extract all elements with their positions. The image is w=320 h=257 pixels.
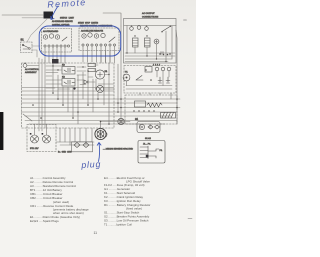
wire from connector to S1 bbox=[27, 19, 47, 42]
fuel pump E4 bbox=[135, 101, 146, 107]
svg-text:A1 CONTROL: A1 CONTROL bbox=[25, 68, 40, 71]
ignition bus wires bbox=[126, 86, 172, 90]
terminal row bbox=[44, 45, 46, 47]
connector block (dark) bbox=[52, 59, 59, 64]
svg-text:SWITCH LIGHT: SWITCH LIGHT bbox=[60, 18, 75, 20]
switch lever bbox=[109, 37, 115, 42]
connector J (black block) bbox=[44, 12, 54, 19]
oil pressure switch S3 bbox=[96, 85, 103, 92]
wire bus y120.5 bbox=[25, 120, 177, 122]
diode CR1 bbox=[84, 80, 88, 84]
resistor R1 bbox=[147, 103, 162, 107]
wire risers panel right bbox=[101, 46, 115, 63]
terminal dot row bbox=[133, 110, 154, 111]
wire riser x118 bbox=[117, 64, 119, 112]
svg-text:J1 – P1: J1 – P1 bbox=[143, 144, 151, 146]
wire drops to bottom bus bbox=[60, 128, 92, 145]
meter M3 bbox=[55, 35, 59, 39]
svg-text:T1 ..........Ignition Coil: T1 ..........Ignition Coil bbox=[104, 223, 132, 227]
rectifier diamond CR' bbox=[83, 143, 89, 148]
wire drops from A2 bbox=[83, 46, 110, 62]
brush block (hatched) bbox=[161, 113, 176, 119]
wire left riser cluster bbox=[39, 58, 45, 131]
svg-text:S1 A2: S1 A2 bbox=[145, 137, 152, 140]
lamp DS1 bbox=[82, 34, 86, 38]
wire right-side verticals bbox=[127, 71, 172, 128]
stray mark right bbox=[188, 218, 192, 220]
wire drops from A3 bbox=[45, 47, 65, 63]
wire generator to right rail bbox=[176, 30, 177, 124]
control assembly A1 (dashed box) bbox=[22, 63, 115, 128]
condenser C1 bbox=[145, 67, 152, 73]
annotation arrow to panel bbox=[51, 6, 58, 20]
stator winding L1 bbox=[133, 38, 139, 47]
wire panel to generator box bbox=[103, 13, 121, 26]
stray mark bbox=[184, 19, 187, 21]
battery plug P1 bbox=[31, 135, 39, 143]
ignition assembly dashed box bbox=[124, 66, 176, 94]
remote cable to off-page bbox=[2, 14, 43, 16]
svg-text:S1: S1 bbox=[21, 38, 25, 42]
diode rectifier bbox=[154, 39, 159, 44]
svg-text:plug: plug bbox=[80, 159, 101, 170]
wire riser x121 bbox=[120, 26, 122, 124]
svg-text:START STOP LIGHTS: START STOP LIGHTS bbox=[78, 22, 99, 25]
wire bus y99 bbox=[22, 98, 181, 100]
wire bus y112 bbox=[22, 111, 178, 113]
AC generator box G1 bbox=[124, 19, 177, 64]
annotation "Remote" (blue handwriting) bbox=[39, 0, 121, 56]
remote control A3 (standard, dashed box) bbox=[42, 29, 72, 53]
receptacle plug J2 (annotated) bbox=[95, 128, 107, 139]
rectifier box bbox=[72, 142, 93, 152]
battery plug P2 bbox=[43, 135, 51, 143]
black scan bar bbox=[0, 112, 3, 150]
brush terminals bbox=[159, 53, 171, 55]
breaker points S2 bbox=[136, 76, 143, 81]
wire battery leads bbox=[35, 124, 47, 135]
meter M4 bbox=[94, 34, 98, 38]
lamp DS2 bbox=[88, 33, 92, 37]
wire bus y91 bbox=[22, 90, 115, 92]
svg-text:BT1 12V: BT1 12V bbox=[30, 148, 39, 150]
terminal T2 bbox=[137, 26, 141, 30]
relay K3 bbox=[62, 65, 75, 75]
svg-text:E2,E3 .....Spark Plugs: E2,E3 .....Spark Plugs bbox=[30, 219, 59, 223]
terminal row bbox=[82, 44, 84, 46]
fuse F1 bbox=[88, 64, 96, 67]
junction dots upper bbox=[52, 65, 152, 89]
wire from plug top bbox=[101, 122, 131, 129]
switch S1 (start-stop, dashed box) bbox=[21, 42, 33, 53]
inset connector detail box bbox=[138, 141, 165, 164]
wire mesh verticals bbox=[53, 63, 109, 124]
wire under cable bbox=[22, 17, 43, 19]
wire bus y95 bbox=[22, 94, 115, 96]
terminal TB1 bbox=[23, 64, 27, 68]
meter M1 bbox=[43, 35, 47, 39]
wire bus y87.5 bbox=[22, 87, 115, 89]
switch lever bbox=[62, 37, 67, 41]
svg-text:11: 11 bbox=[94, 231, 98, 235]
svg-text:A3 STANDARD REMOTE: A3 STANDARD REMOTE bbox=[52, 20, 73, 23]
wire bus y103 bbox=[22, 102, 178, 104]
bus wires in generator box bbox=[125, 53, 175, 62]
svg-text:A2 DELUXE REMOTE: A2 DELUXE REMOTE bbox=[81, 30, 104, 33]
legend right column bbox=[104, 176, 150, 227]
relay K2 bbox=[62, 77, 75, 87]
annotation arrow to plug bbox=[97, 143, 101, 162]
battery BT1 dashed box bbox=[27, 125, 56, 152]
svg-text:B+ GND CHG: B+ GND CHG bbox=[58, 152, 72, 154]
rectifier diamond CR bbox=[74, 143, 80, 148]
switch blade bbox=[162, 27, 170, 32]
wire interior links bbox=[46, 65, 114, 89]
wire S1 to panel bbox=[32, 46, 40, 57]
ignition coil T1 bbox=[123, 72, 130, 81]
bottom bus bbox=[56, 142, 94, 145]
wire bus y107.5 bbox=[22, 107, 181, 109]
remote control A2 (deluxe, dashed box) bbox=[79, 28, 119, 51]
meter M5 bbox=[101, 33, 105, 37]
fuse F2 bbox=[88, 69, 96, 72]
svg-text:ASSEMBLY: ASSEMBLY bbox=[25, 71, 37, 74]
meter M2 bbox=[49, 34, 53, 38]
start solenoid K1 bbox=[95, 70, 108, 79]
engine assembly dashed box bbox=[125, 95, 177, 124]
junction dots bbox=[32, 92, 110, 125]
terminal T3 bbox=[145, 27, 149, 31]
svg-text:— MEANS ENGINE GROUND: — MEANS ENGINE GROUND bbox=[103, 148, 133, 151]
terminal circles bbox=[155, 67, 159, 71]
svg-text:AC OUTPUT: AC OUTPUT bbox=[142, 12, 155, 15]
circuit breaker CB1 bbox=[118, 118, 124, 124]
wire diagonal bbox=[23, 114, 32, 121]
annotation "plug" (blue handwriting) bbox=[80, 143, 101, 171]
wire bus y116 bbox=[25, 115, 171, 117]
annotation oval around remote panel bbox=[39, 26, 121, 56]
legend left column bbox=[30, 176, 89, 223]
terminal T1 bbox=[130, 27, 134, 31]
spark plug E3 bbox=[166, 77, 170, 83]
wire bus y124 bbox=[29, 123, 165, 125]
svg-text:A3 STANDARD: A3 STANDARD bbox=[43, 30, 59, 33]
stator winding L2 bbox=[145, 38, 151, 47]
generator G1 cluster bbox=[137, 122, 160, 133]
winding leads bbox=[127, 26, 172, 62]
spark plug E2 bbox=[158, 77, 162, 83]
